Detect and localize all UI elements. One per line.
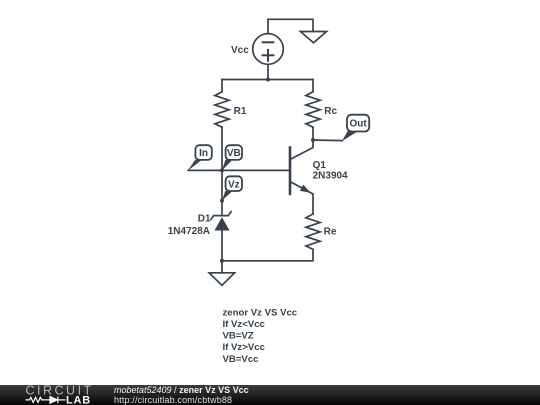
node dot base junction <box>220 168 224 172</box>
resistor Rc <box>306 92 320 127</box>
logo squiggle <box>26 397 66 404</box>
flag pointer In <box>188 160 202 171</box>
wire Re bottom <box>222 249 313 260</box>
svg-text:Out: Out <box>349 118 367 129</box>
svg-text:VB=Vcc: VB=Vcc <box>223 354 260 365</box>
svg-text:R1: R1 <box>234 106 247 117</box>
flag box In <box>195 145 211 160</box>
voltage source V1 circle <box>253 34 284 65</box>
svg-text:If Vz<Vcc: If Vz<Vcc <box>223 319 266 330</box>
transistor Q1 collector <box>290 140 313 160</box>
wire base horizontal <box>188 169 290 171</box>
svg-text:LAB: LAB <box>66 394 91 405</box>
wire Vcc bottom to rail <box>267 64 269 79</box>
ground (bottom) <box>209 273 234 286</box>
svg-text:http://circuitlab.com/cbtwb88: http://circuitlab.com/cbtwb88 <box>114 395 232 405</box>
svg-text:mobetat52409 / zener Vz VS Vcc: mobetat52409 / zener Vz VS Vcc <box>114 385 249 395</box>
Q1 emitter arrow <box>300 185 311 193</box>
transistor Q1 base bar <box>289 148 292 194</box>
node dot collector <box>311 138 315 142</box>
resistor Re <box>306 214 320 249</box>
zener D1 triangle <box>215 217 230 230</box>
svg-text:2N3904: 2N3904 <box>313 170 348 181</box>
svg-text:1N4728A: 1N4728A <box>168 226 210 237</box>
flag box Vz <box>226 176 242 191</box>
resistor R1 <box>215 92 229 127</box>
wire Rc top lead <box>312 80 314 92</box>
flag pointer Vz <box>222 191 233 201</box>
V1 plus sign <box>263 54 274 56</box>
flag pointer Out <box>342 131 357 142</box>
svg-text:VB: VB <box>227 148 241 159</box>
flag pointer VB <box>222 160 233 171</box>
svg-text:Re: Re <box>324 227 337 238</box>
svg-text:In: In <box>199 148 208 159</box>
wire zener to ground <box>221 231 223 273</box>
node dot rail <box>266 78 270 82</box>
svg-text:VB=VZ: VB=VZ <box>223 331 254 342</box>
svg-text:Rc: Rc <box>324 106 337 117</box>
svg-text:zenor Vz VS Vcc: zenor Vz VS Vcc <box>223 307 298 318</box>
wire top rail <box>222 79 313 81</box>
ground (top right) <box>300 32 326 43</box>
node dot bottom <box>220 259 224 263</box>
wire R1 top lead <box>221 80 223 92</box>
svg-text:Vcc: Vcc <box>231 45 249 56</box>
svg-text:If Vz>Vcc: If Vz>Vcc <box>223 342 266 353</box>
zener D1 cathode bar <box>211 212 231 220</box>
svg-text:Q1: Q1 <box>313 160 327 171</box>
flag box Out <box>347 115 369 132</box>
flag box VB <box>226 145 242 160</box>
wire Rc bottom to collector node <box>312 127 314 140</box>
V1 minus sign <box>263 41 274 43</box>
transistor Q1 emitter <box>290 182 313 214</box>
wire R1 bottom to zener <box>221 127 223 215</box>
node dot Vz <box>220 199 224 203</box>
wire Vcc top to corner <box>268 19 313 33</box>
svg-text:D1: D1 <box>198 214 211 225</box>
svg-text:Vz: Vz <box>228 179 240 190</box>
wire node to Out <box>313 139 342 142</box>
